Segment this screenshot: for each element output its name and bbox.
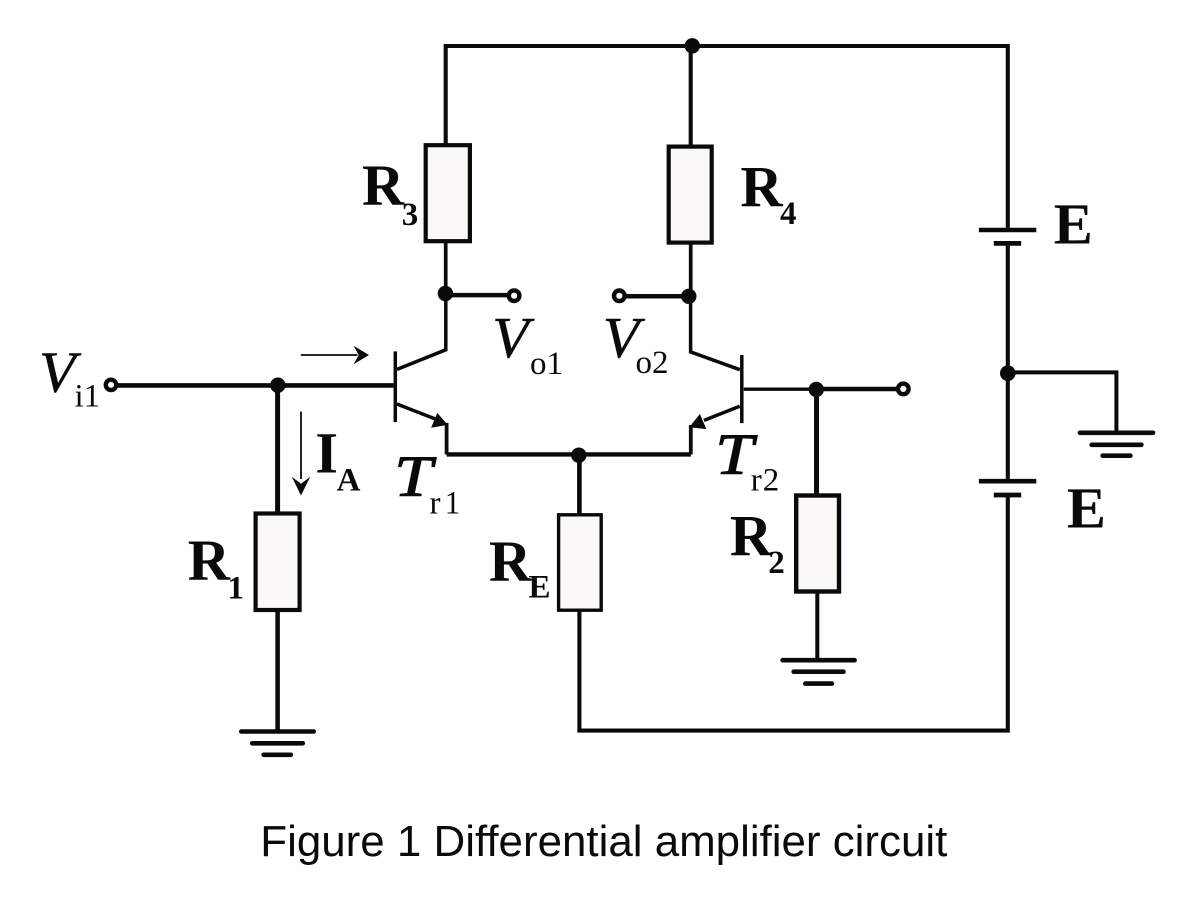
current arrow IA — [300, 412, 302, 480]
junction node output right — [809, 382, 824, 397]
wire R3 bottom to node Vo1 — [444, 241, 448, 295]
svg-text:i1: i1 — [75, 378, 101, 414]
transistor Q2 base bar — [740, 355, 744, 423]
wire base Q2 to output node — [744, 388, 810, 391]
svg-text:E: E — [529, 569, 551, 605]
wire node to R1 — [275, 385, 280, 514]
wire R2 to ground — [815, 592, 819, 661]
wire between battery cells — [1006, 246, 1010, 479]
junction node input / R1 — [270, 378, 285, 393]
svg-text:r: r — [430, 486, 441, 522]
transistor Q1 base bar — [394, 351, 398, 422]
svg-text:A: A — [337, 462, 361, 498]
junction node mid supply to ground — [1000, 365, 1016, 381]
wire node Vo2 to output terminal — [626, 294, 689, 299]
wire emitter rail — [447, 452, 691, 456]
resistor R1 — [256, 514, 300, 611]
svg-text:E: E — [1054, 192, 1093, 257]
resistor R3 — [426, 145, 470, 241]
svg-text:R: R — [730, 503, 773, 568]
terminal Vo2 — [614, 291, 625, 302]
svg-text:2: 2 — [763, 463, 780, 499]
resistor RE — [559, 515, 602, 610]
wire input to base Q1 — [118, 383, 394, 388]
svg-text:I: I — [315, 421, 338, 486]
svg-text:4: 4 — [780, 196, 797, 232]
wire output node to R2 — [814, 389, 819, 496]
terminal output right — [898, 384, 909, 395]
wire node to right terminal — [816, 387, 897, 392]
wire node to RE — [577, 455, 582, 515]
wire R4 top drop — [689, 46, 693, 147]
junction node top rail to R4 — [685, 38, 700, 53]
wire RE to bottom rail and bottom rail to right riser — [579, 497, 1007, 731]
terminal Vi1 — [106, 380, 116, 390]
svg-text:R: R — [489, 528, 532, 593]
wire node Vo1 to output terminal — [445, 293, 507, 298]
terminal Vo1 — [509, 290, 520, 301]
battery E bottom cell short plate — [994, 493, 1021, 498]
svg-text:3: 3 — [402, 197, 419, 233]
wire mid supply to right ground — [1008, 372, 1117, 430]
battery E bottom cell long plate — [979, 479, 1036, 484]
junction node Vo2 — [681, 289, 696, 304]
ground right — [1080, 433, 1153, 456]
wire top supply rail with left drop to R3 and right drop to battery E — [446, 46, 1008, 228]
svg-text:R: R — [188, 528, 231, 593]
svg-text:2: 2 — [768, 545, 785, 581]
transistor Q2 emitter lead with arrow — [704, 406, 740, 420]
resistor R4 — [669, 147, 712, 243]
svg-text:V: V — [492, 305, 535, 370]
transistor Q1 collector lead — [397, 294, 446, 369]
svg-text:E: E — [1067, 475, 1106, 540]
wire R4 bottom to node Vo2 — [689, 243, 693, 297]
svg-text:1: 1 — [445, 486, 461, 522]
wire R1 to ground — [275, 610, 280, 732]
svg-text:r: r — [751, 463, 762, 499]
svg-text:o1: o1 — [530, 346, 563, 382]
transistor Q2 collector lead — [691, 296, 740, 370]
battery E top cell long plate — [979, 228, 1036, 233]
ground under R1 — [241, 732, 313, 755]
svg-text:1: 1 — [228, 571, 245, 607]
battery E top cell short plate — [994, 241, 1021, 246]
ground under R2 — [783, 660, 855, 683]
svg-text:R: R — [362, 153, 405, 218]
svg-text:o2: o2 — [636, 345, 669, 381]
svg-text:Figure 1 Differential amplifie: Figure 1 Differential amplifier circuit — [260, 817, 947, 866]
transistor Q1 emitter lead with arrow — [397, 404, 436, 419]
current direction arrow at base — [301, 354, 358, 356]
svg-text:R: R — [740, 154, 783, 219]
junction node emitter rail / RE — [571, 448, 586, 463]
resistor R2 — [796, 496, 839, 592]
junction node Vo1 — [438, 286, 453, 301]
